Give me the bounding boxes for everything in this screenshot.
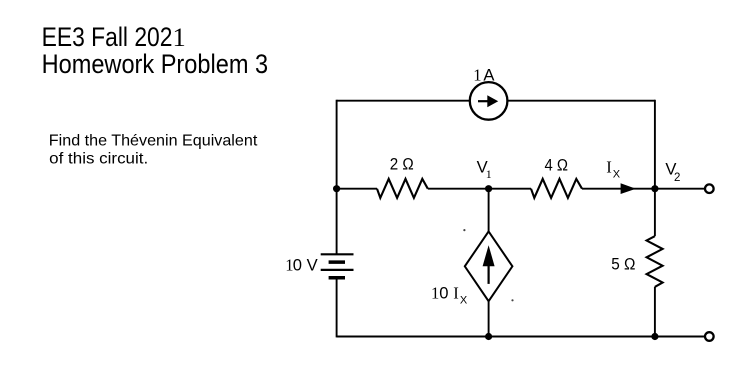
wire dependent source bottom to bottom rail [488, 301, 490, 337]
dependent current source (diamond) [465, 231, 513, 301]
svg-text:X: X [613, 168, 621, 180]
svg-text:Homework Problem 3: Homework Problem 3 [42, 49, 269, 79]
svg-text:1: 1 [173, 22, 186, 52]
wire middle-right (4-ohm resistor to node V2, carries Ix) [582, 188, 655, 190]
label "10 Ix" [431, 284, 468, 307]
wire top-left horizontal (top rail, left of current source) [337, 100, 470, 102]
node junction dot (left rail / middle wire) [333, 185, 340, 192]
svg-text:1: 1 [431, 284, 439, 303]
stray ink speck near diamond top-left [463, 229, 465, 231]
wire left vertical lower (battery - to bottom rail) [336, 278, 338, 338]
svg-text:0: 0 [293, 256, 302, 275]
node junction dot (bottom rail / dependent source) [485, 333, 492, 340]
wire node V1 down to dependent source top [488, 189, 490, 232]
wire left vertical upper (top rail to battery +) [336, 100, 338, 255]
wire right vertical upper (top rail down to node V2) [654, 100, 656, 189]
svg-text:of this circuit.: of this circuit. [49, 150, 148, 167]
svg-text:1: 1 [486, 167, 492, 181]
current source I1 (1 A) circle [470, 82, 508, 120]
resistor R2 4-ohm zigzag [531, 179, 582, 198]
svg-text:X: X [460, 295, 468, 307]
label "Ix" [606, 158, 621, 181]
current Ix arrowhead on middle wire [621, 183, 636, 194]
wire bottom node to lower output terminal [655, 336, 704, 338]
wire right vertical lower (5-ohm resistor to bottom rail) [654, 287, 656, 338]
svg-text:0: 0 [439, 284, 448, 303]
node junction dot (bottom rail / right branch) [651, 333, 658, 340]
svg-text:2: 2 [674, 172, 680, 184]
wire top-right horizontal (top rail, right of current source) [507, 100, 655, 102]
svg-text:1: 1 [473, 66, 481, 85]
output terminal lower (open circle) [705, 332, 714, 341]
wire node V2 to upper output terminal [655, 188, 704, 190]
wire right vertical middle (node V2 down to 5-ohm resistor) [654, 189, 656, 237]
svg-text:5 Ω: 5 Ω [611, 255, 635, 274]
svg-text:4 Ω: 4 Ω [545, 155, 569, 174]
node label V2 [665, 159, 680, 184]
svg-text:2 Ω: 2 Ω [390, 155, 414, 174]
wire bottom rail [337, 336, 655, 338]
wire middle-center (2-ohm resistor to node V1 to 4-ohm resistor) [428, 188, 531, 190]
resistor R3 5-ohm vertical zigzag [647, 236, 663, 287]
svg-text:EE3 Fall 202: EE3 Fall 202 [42, 22, 173, 52]
svg-text:I: I [606, 158, 612, 177]
output terminal upper (open circle) [705, 184, 714, 193]
resistor R1 2-ohm zigzag [377, 179, 428, 198]
svg-text:A: A [483, 66, 495, 85]
node junction dot V2 [651, 185, 658, 192]
svg-text:V: V [307, 256, 318, 275]
stray ink speck near diamond bottom-right [511, 299, 513, 301]
svg-text:I: I [453, 284, 459, 303]
node label V1 [477, 157, 492, 181]
svg-text:Find the Thévenin Equivalent: Find the Thévenin Equivalent [49, 132, 258, 149]
current source I1 arrow [478, 95, 498, 107]
dependent source arrow (up) [483, 245, 495, 284]
node junction dot V1 [485, 185, 492, 192]
wire middle-left (node A to 2-ohm resistor) [337, 188, 377, 190]
battery V (10 V) plates [321, 254, 354, 277]
